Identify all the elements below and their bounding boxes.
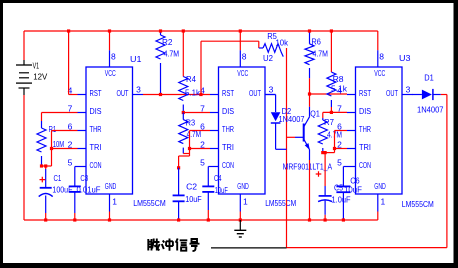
pin 8 stub <box>239 50 241 67</box>
svg-text:R1: R1 <box>49 124 57 134</box>
svg-text:Q1: Q1 <box>310 108 320 118</box>
wire VCC rail to U2 pin8 <box>239 31 241 50</box>
label C1 plus sign <box>40 177 46 183</box>
wire U1 OUT up-over to R5 <box>200 41 202 94</box>
svg-text:1N4007: 1N4007 <box>417 105 444 115</box>
svg-text:R7: R7 <box>324 117 334 127</box>
wire R8 bottom to U3 DIS pin7 <box>323 111 347 113</box>
capacitor C5 1.0uF polarized <box>324 153 326 186</box>
capacitor C4 10uF <box>202 185 214 187</box>
wire U3 TRI pin2 tie <box>335 148 348 150</box>
wire R6 bottom to Q1 collector / U3 RST <box>309 78 311 107</box>
resistor R2 4.7M <box>160 31 162 35</box>
svg-text:4.7M: 4.7M <box>164 48 180 58</box>
resistor R8 5.1k <box>330 31 332 72</box>
wire left VCC rail to battery top <box>23 31 25 60</box>
wire bottom ground rail <box>24 219 378 221</box>
svg-text:LM555CM: LM555CM <box>402 199 434 209</box>
svg-text:4.7M: 4.7M <box>313 48 329 58</box>
wire R1 bottom / C1 node <box>42 165 52 167</box>
transistor Q1 MRF9011LT1_A NPN <box>283 107 333 172</box>
wire U1 THR/TRI vertical tie <box>51 131 53 167</box>
resistor R7 4.7M <box>322 112 324 118</box>
wire U3 THR/TRI vertical tie <box>334 131 336 153</box>
svg-text:R4: R4 <box>186 74 196 84</box>
wire R5 right down: signal column <box>286 48 288 248</box>
diode D2 1N4007 <box>265 94 276 96</box>
wire U2 THR/TRI vertical tie <box>189 131 191 157</box>
resistor R5 10k horizontal <box>263 44 283 57</box>
svg-text:10uF: 10uF <box>215 185 228 195</box>
svg-text:U1: U1 <box>130 54 142 64</box>
wire R4 bottom to U2 DIS pin7 <box>183 112 210 114</box>
wire U1 DIS pin7 to R1 top <box>42 112 78 114</box>
wire D1 to right edge down <box>441 94 447 96</box>
svg-text:12V: 12V <box>33 71 47 81</box>
resistor R4 5.1k <box>182 31 184 77</box>
svg-text:D1: D1 <box>424 73 434 83</box>
svg-text:8: 8 <box>111 51 116 61</box>
svg-text:10uF: 10uF <box>185 194 202 204</box>
capacitor C6 10uF <box>336 185 350 187</box>
svg-text:LM555CM: LM555CM <box>265 198 296 208</box>
battery V1 12V <box>16 60 48 95</box>
svg-text:LM555CM: LM555CM <box>133 198 166 208</box>
wire U3 CON pin5 to C6 <box>343 166 347 168</box>
wire U1 CON pin5 to C3 <box>75 166 78 168</box>
svg-text:1.0uF: 1.0uF <box>332 194 351 204</box>
svg-text:R2: R2 <box>162 37 173 47</box>
resistor R1 10M <box>37 128 46 152</box>
capacitor C3 0.01uF <box>69 185 81 187</box>
wire R7 bottom to U3 THR/TRI tie <box>323 152 335 154</box>
svg-text:1: 1 <box>243 196 248 206</box>
svg-text:1N4007: 1N4007 <box>279 114 305 124</box>
svg-text:R8: R8 <box>333 74 344 84</box>
wire VCC top rail <box>24 30 378 32</box>
wire U2 THR pin6 tie <box>190 130 211 132</box>
svg-text:U2: U2 <box>263 53 273 63</box>
svg-text:C5: C5 <box>334 183 343 193</box>
svg-text:R6: R6 <box>311 37 321 47</box>
wire Q1 emitter to ground rail <box>309 160 311 220</box>
svg-text:U3: U3 <box>399 53 411 63</box>
svg-text:10k: 10k <box>276 37 289 47</box>
svg-text:8: 8 <box>242 51 247 61</box>
svg-text:8: 8 <box>379 51 384 61</box>
resistor R6 4.7M <box>309 31 311 44</box>
svg-text:C4: C4 <box>214 173 222 183</box>
capacitor C1 100uF polarized <box>45 166 47 169</box>
label C5 plus sign <box>316 171 322 177</box>
wire VCC rail to U1 RST pin4 <box>68 31 70 95</box>
svg-text:5.1k: 5.1k <box>185 87 201 97</box>
svg-text:C3: C3 <box>80 173 88 183</box>
svg-text:V1: V1 <box>33 62 40 71</box>
op U2 LM555CM timer IC <box>200 67 275 194</box>
capacitor C2 10uF <box>178 168 180 195</box>
pin 8 stub <box>377 50 379 67</box>
wire U2 TRI pin2 tie <box>190 148 211 150</box>
pin 1 stub <box>239 194 241 212</box>
ground symbol <box>234 220 246 237</box>
resistor R3 4.7M <box>182 113 184 120</box>
label 脉冲信号 (pulse signal) <box>148 239 199 252</box>
svg-text:0.01uF: 0.01uF <box>77 185 101 195</box>
wire U1 TRI pin2 tie <box>52 148 78 150</box>
diode D1 1N4007 <box>412 94 422 96</box>
pin 8 stub <box>109 50 111 67</box>
svg-text:C1: C1 <box>54 173 62 183</box>
wire U3 THR pin6 tie <box>335 130 348 132</box>
pin 1 stub <box>109 194 111 212</box>
wire U2 pin1 to ground rail <box>239 212 241 221</box>
wire U1 pin1 to ground rail <box>109 212 111 221</box>
wire VCC rail corner to U3 pin8 <box>377 31 379 50</box>
op U3 LM555CM timer IC <box>337 67 412 194</box>
svg-text:R3: R3 <box>186 118 196 128</box>
svg-text:1: 1 <box>381 196 386 206</box>
label line 脉冲信号 pointer <box>211 247 287 249</box>
svg-text:1: 1 <box>112 196 117 206</box>
wire VCC rail to U1 pin8 <box>109 31 111 50</box>
wire U1 OUT to U2 RST <box>143 94 210 96</box>
svg-text:10M: 10M <box>53 139 64 149</box>
wire U1 THR pin6 tie <box>52 130 78 132</box>
wire bottom output line <box>287 247 447 249</box>
svg-text:10uF: 10uF <box>344 185 362 195</box>
pin 1 stub <box>377 194 379 212</box>
wire battery bottom to ground rail <box>23 95 25 220</box>
op U1 LM555CM timer IC <box>68 67 143 194</box>
wire tie down to C2 <box>179 155 190 157</box>
svg-text:C2: C2 <box>186 181 197 191</box>
wire U2 CON pin5 to C4 <box>208 166 210 168</box>
wire U3 pin1 corner to ground rail <box>377 212 379 221</box>
wire base feed from signal column <box>287 136 296 138</box>
